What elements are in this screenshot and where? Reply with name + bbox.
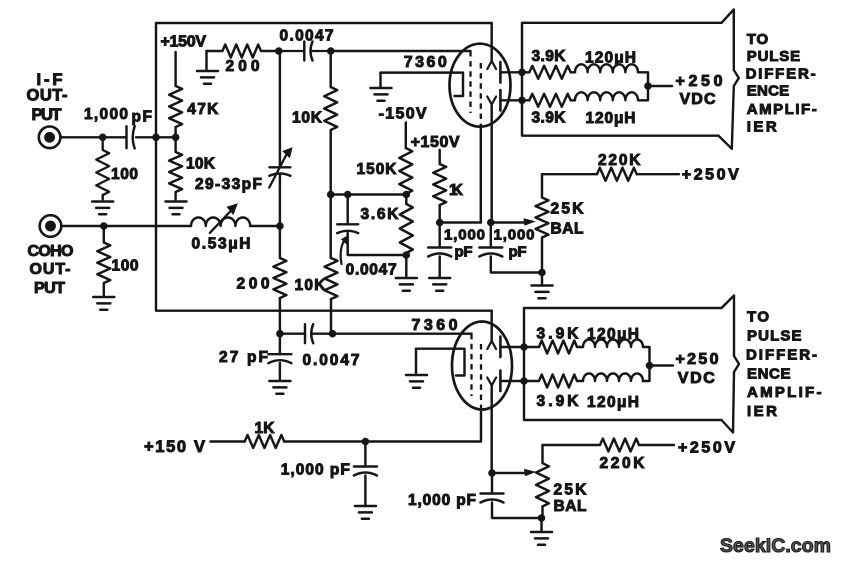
wire frame loop (deflection feedback): [156, 23, 492, 311]
V1 Y deflection electrode: [487, 97, 496, 105]
svg-text:10K: 10K: [295, 277, 327, 294]
svg-text:VDC: VDC: [678, 370, 715, 387]
ground under R8: [396, 278, 417, 291]
svg-text:+150 V: +150 V: [144, 438, 205, 456]
capacitor C10 1,000pF: [491, 473, 493, 494]
ground under R3: [166, 202, 187, 215]
arrow through C3: [269, 152, 288, 188]
V2 plate 1: [499, 337, 502, 358]
svg-text:DIFFER-: DIFFER-: [746, 65, 816, 82]
svg-text:0.0047: 0.0047: [280, 28, 334, 45]
ground under R4: [93, 297, 114, 310]
svg-text:1K: 1K: [449, 182, 464, 199]
capacitor C4 0.0047 (cathode bypass): [348, 195, 407, 256]
ground under C8: [269, 381, 290, 394]
V1 cathode: [381, 73, 464, 96]
svg-text:+150V: +150V: [411, 134, 460, 151]
resistor R18 3.9K: [524, 375, 583, 388]
svg-text:1,000 pF: 1,000 pF: [408, 492, 476, 509]
ground under C5: [429, 278, 450, 291]
svg-text:25K: 25K: [554, 482, 588, 499]
svg-text:120μH: 120μH: [586, 110, 636, 127]
resistor R1 100 (I-F shunt): [96, 137, 109, 195]
node pot1 bottom junction: [538, 269, 546, 277]
svg-text:pF: pF: [509, 244, 527, 261]
capacitor C2 0.0047 (coupling): [279, 50, 331, 52]
svg-text:3.9K: 3.9K: [532, 48, 567, 65]
wire pot1 to ground: [541, 273, 543, 285]
capacitor C3 29-33pF variable: [279, 51, 281, 226]
V2 plate 2: [499, 371, 502, 392]
node box1 plate dots: [518, 69, 526, 77]
svg-text:220K: 220K: [600, 455, 646, 472]
svg-text:0.0047: 0.0047: [346, 262, 397, 279]
V2 grid2 lead to 1K line: [365, 409, 481, 442]
tube V1 7360 envelope: [450, 44, 511, 127]
svg-text:100: 100: [111, 166, 138, 183]
svg-text:1K: 1K: [255, 420, 276, 437]
node COHO junction: [100, 222, 108, 230]
svg-text:ENCE: ENCE: [747, 365, 791, 382]
svg-text:TO: TO: [747, 309, 769, 326]
capacitor C5 1,000pF: [438, 223, 440, 248]
wire +250 VDC stub 2: [650, 364, 674, 366]
node C2-grid junction: [327, 47, 335, 55]
inductor L4 120uH: [583, 340, 643, 347]
svg-text:TO: TO: [747, 31, 769, 48]
capacitor C9 1,000pF: [364, 442, 366, 467]
resistor R14 200: [273, 226, 286, 334]
svg-text:3.9K: 3.9K: [537, 326, 580, 343]
wire lower grid line: [280, 332, 472, 334]
svg-text:120μH: 120μH: [587, 394, 639, 411]
V2 grid 2 (dashed): [480, 344, 482, 409]
svg-text:47K: 47K: [187, 101, 219, 118]
capacitor C1 1,000pF input coupling: [127, 126, 135, 148]
svg-text:1,000: 1,000: [444, 227, 485, 244]
bracket to pulse amplifier (top): [719, 10, 739, 149]
ground at R5 left: [205, 51, 207, 70]
resistor R6 10K (plate load): [324, 51, 337, 195]
V1 grid 2 (dashed): [480, 63, 482, 126]
wire +150V feed: [174, 52, 176, 86]
inductor L5 120uH: [583, 374, 643, 381]
ground under pot2: [531, 532, 552, 545]
wire node A: [440, 221, 481, 223]
V1 grid 1 (dashed): [469, 51, 471, 113]
resistor R4 100 (COHO shunt): [97, 226, 110, 296]
svg-text:25K: 25K: [551, 201, 585, 218]
wire COHO line: [61, 225, 191, 227]
svg-text:PULSE: PULSE: [747, 328, 802, 345]
ground at V1 cathode: [379, 73, 381, 87]
resistor R17 3.9K: [524, 341, 583, 354]
resistor R3 10K: [169, 137, 182, 199]
arrow pointing to C4: [341, 239, 346, 265]
node B2 junction: [488, 469, 496, 477]
node L1-right junction: [276, 222, 284, 230]
svg-text:PUT: PUT: [34, 280, 65, 297]
svg-text:0.0047: 0.0047: [303, 352, 360, 369]
svg-text:200: 200: [237, 276, 270, 293]
ground under C9: [355, 506, 376, 519]
svg-text:200: 200: [226, 58, 260, 75]
node R5-C2 junction: [275, 47, 283, 55]
svg-text:DIFFER-: DIFFER-: [746, 346, 817, 363]
capacitor C7 0.0047 (coupling): [305, 324, 313, 343]
ground under pot1: [532, 286, 553, 299]
node dots lower grid line: [276, 330, 284, 338]
node pot2 bottom junction: [538, 514, 546, 522]
svg-text:3.6K: 3.6K: [361, 206, 400, 223]
inductor L3 120uH: [575, 92, 638, 100]
resistor R10 3.9K: [522, 66, 575, 79]
node B junction: [487, 219, 495, 227]
svg-text:PUT: PUT: [32, 106, 62, 124]
V2 grid 1 (dashed): [470, 334, 472, 396]
svg-text:SeekIC.com: SeekIC.com: [720, 535, 831, 557]
node 1K line junction: [362, 438, 370, 446]
svg-text:OUT-: OUT-: [27, 87, 68, 105]
resistor R12 220K: [542, 168, 679, 181]
resistor R15 10K: [325, 195, 338, 334]
svg-text:1,000 pF: 1,000 pF: [281, 462, 350, 479]
node box2 plate dots: [520, 343, 528, 351]
svg-text:1,000: 1,000: [494, 227, 535, 244]
inductor L1 0.53uH variable: [191, 218, 280, 227]
capacitor C8 27pF: [279, 334, 281, 355]
svg-text:VDC: VDC: [680, 91, 716, 108]
node box1 mid junction: [644, 82, 652, 90]
svg-text:100: 100: [112, 258, 139, 275]
svg-text:3.9K: 3.9K: [532, 110, 567, 127]
resistor R9 1K: [433, 164, 446, 223]
ground at V2 cathode: [415, 349, 417, 374]
svg-text:29-33pF: 29-33pF: [195, 176, 262, 193]
resistor R19 220K: [543, 439, 675, 452]
node A junction: [436, 219, 444, 227]
wire +150V feed 2: [438, 150, 440, 164]
wire box1 outline: [522, 23, 722, 136]
terminal J2 COHO output jack: [40, 215, 62, 237]
svg-text:+250V: +250V: [678, 440, 735, 457]
svg-text:120μH: 120μH: [585, 50, 636, 67]
node R8 bottom: [403, 251, 411, 259]
svg-text:150K: 150K: [357, 161, 398, 178]
wire box2 outline: [524, 308, 722, 420]
potentiometer R13 25K BAL: [536, 174, 549, 272]
svg-text:+150V: +150V: [161, 34, 207, 51]
wire +150V to R16: [210, 440, 244, 442]
arrow through L1: [210, 209, 233, 233]
wire I-F input line: [61, 136, 176, 138]
svg-text:3.9K: 3.9K: [537, 393, 580, 410]
ground under R1: [92, 202, 113, 215]
V1 plate 2: [499, 90, 502, 111]
wire R8 to ground: [405, 255, 407, 277]
svg-text:pF: pF: [132, 109, 153, 126]
resistor R7 150K: [399, 148, 412, 194]
tube V2 7360 envelope: [452, 322, 512, 410]
V1 X deflection electrode: [490, 23, 492, 61]
node dots on line: [327, 191, 335, 199]
resistor R5 200 (grid return): [207, 45, 279, 58]
svg-text:+250V: +250V: [682, 167, 739, 184]
wire to V1 grid 1: [331, 50, 471, 52]
V2 X deflection electrode: [490, 311, 492, 341]
resistor R2 47K: [169, 86, 182, 137]
wire node B2 to pot wiper: [492, 472, 527, 474]
potentiometer R20 25K BAL: [536, 445, 549, 518]
svg-text:BAL: BAL: [554, 498, 587, 515]
node box2 mid junction: [646, 362, 654, 370]
V1 plate 1: [499, 62, 502, 83]
capacitor C6 1,000pF: [490, 223, 492, 248]
svg-text:220K: 220K: [598, 152, 641, 169]
resistor R8 3.6K: [400, 195, 413, 256]
wire R16 to V2 grid2: [284, 440, 365, 442]
svg-text:pF: pF: [455, 244, 473, 261]
svg-text:BAL: BAL: [551, 221, 584, 238]
svg-text:120μH: 120μH: [587, 326, 639, 343]
wire node line: [331, 193, 407, 195]
terminal J1 I-F output jack: [39, 127, 61, 149]
resistor R16 1K: [245, 435, 285, 448]
node: input junction dots: [99, 134, 107, 142]
V1 grid2 lead to node A: [480, 126, 482, 223]
wire node B to pot wiper: [491, 221, 526, 223]
wire +250 VDC stub: [648, 85, 672, 87]
svg-text:ENCE: ENCE: [747, 82, 790, 99]
inductor L2 120uH: [575, 64, 638, 72]
svg-text:10K: 10K: [292, 110, 323, 127]
V2 Y deflection electrode: [487, 378, 496, 386]
V2 cathode: [416, 349, 465, 376]
svg-text:PULSE: PULSE: [747, 48, 801, 65]
svg-text:-150V: -150V: [379, 106, 427, 123]
svg-text:1,000: 1,000: [84, 106, 128, 123]
svg-text:OUT-: OUT-: [30, 261, 71, 278]
wire -150V feed: [405, 123, 407, 149]
bracket to pulse amplifier (bottom): [722, 296, 740, 433]
svg-text:AMPLIF-: AMPLIF-: [747, 101, 817, 118]
resistor R11 3.9K: [522, 94, 575, 107]
wire pot2 to ground: [540, 518, 542, 531]
svg-text:27 pF: 27 pF: [219, 349, 268, 366]
svg-text:10K: 10K: [186, 156, 216, 173]
svg-text:COHO: COHO: [28, 243, 74, 260]
